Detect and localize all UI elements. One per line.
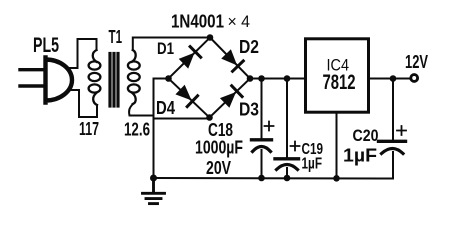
junction dot 12V — [390, 75, 397, 82]
svg-text:7812: 7812 — [323, 70, 356, 94]
T1 secondary winding — [128, 50, 140, 104]
capacitor C19 — [275, 79, 300, 179]
node bottom — [206, 114, 213, 121]
svg-text:1µF: 1µF — [343, 146, 377, 166]
svg-text:D2: D2 — [239, 37, 259, 57]
T1 primary winding — [89, 50, 101, 105]
svg-text:12V: 12V — [405, 52, 428, 72]
junction dot C19 bottom — [284, 175, 291, 182]
capacitor C20 — [379, 79, 407, 179]
plug body — [46, 58, 72, 103]
wire plug bottom lead to primary — [70, 90, 97, 117]
svg-text:1000µF: 1000µF — [195, 138, 243, 158]
transformer T1 — [89, 50, 140, 106]
junction dot C18 top — [258, 75, 265, 82]
diode D1 — [180, 47, 201, 68]
node left — [165, 75, 172, 82]
svg-text:PL5: PL5 — [33, 33, 59, 57]
diode D4 — [176, 86, 197, 107]
junction dot C18 bottom — [258, 175, 265, 182]
svg-text:T1: T1 — [109, 27, 123, 47]
wire bridge left node to ground (vertical) — [154, 79, 169, 179]
node top — [207, 34, 214, 41]
svg-text:D1: D1 — [157, 39, 174, 58]
wire bottom ground rail — [154, 177, 394, 180]
wire top node to right node — [210, 38, 250, 79]
svg-text:D4: D4 — [156, 98, 175, 118]
plug prong bottom — [20, 84, 44, 87]
wire secondary bottom to bridge bottom node — [129, 104, 209, 119]
svg-text:C20: C20 — [353, 126, 379, 145]
svg-text:1N4001: 1N4001 — [171, 11, 224, 32]
svg-text:117: 117 — [79, 119, 99, 139]
wire secondary top to bridge top node — [133, 38, 210, 51]
wire plug top lead to primary — [69, 39, 97, 68]
plug PL5 — [20, 58, 72, 103]
plug prong top — [20, 68, 44, 71]
ground symbol — [143, 178, 165, 204]
T1 core — [110, 54, 118, 107]
diode D2 — [222, 50, 243, 71]
wire left node to top node — [169, 38, 211, 79]
wire left node to bottom node — [169, 79, 210, 118]
junction dot IC4 ground — [333, 175, 340, 182]
capacitor C18 — [252, 79, 274, 179]
svg-text:1µF: 1µF — [302, 156, 323, 173]
junction dot C19 top — [284, 75, 291, 82]
IC4 regulator box — [306, 39, 369, 112]
svg-text:× 4: × 4 — [228, 13, 251, 31]
wire IC4 ground lead — [336, 112, 338, 178]
svg-text:20V: 20V — [206, 158, 231, 178]
diode D3 — [221, 86, 242, 107]
svg-text:12.6: 12.6 — [124, 119, 150, 140]
wire right node to IC4 input — [250, 78, 305, 80]
wire bottom node to right node — [210, 79, 251, 118]
node right — [247, 75, 254, 82]
svg-text:D3: D3 — [239, 99, 259, 120]
wire IC4 output to 12V terminal — [370, 78, 410, 80]
ground junction dot — [150, 175, 157, 182]
12V terminal — [411, 75, 418, 82]
